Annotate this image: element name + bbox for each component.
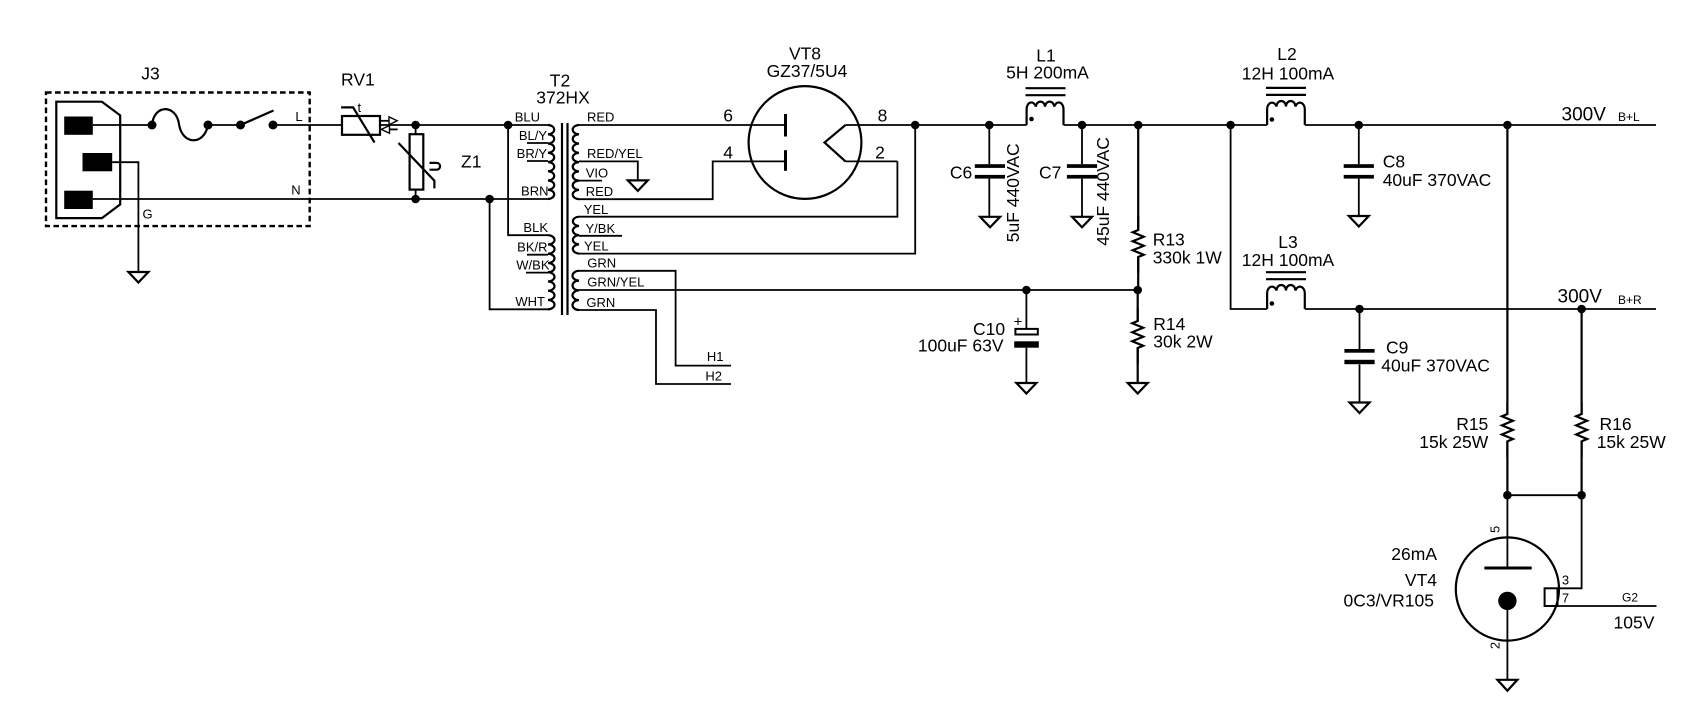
wire fuse to switch (208, 124, 241, 126)
svg-text:4: 4 (723, 143, 733, 163)
svg-text:5H 200mA: 5H 200mA (1006, 63, 1089, 83)
resistor R16 (B+R dropper) (1576, 309, 1587, 495)
svg-text:H2: H2 (705, 369, 722, 384)
svg-text:0C3/VR105: 0C3/VR105 (1344, 591, 1434, 611)
capacitor C7 plates (1067, 164, 1097, 168)
VT8 plate pin 4 bar (784, 150, 787, 171)
svg-text:330k 1W: 330k 1W (1153, 248, 1223, 268)
svg-text:5uF 440VAC: 5uF 440VAC (1003, 143, 1023, 242)
connector J3 pin G (blade) (83, 153, 113, 171)
wire YEL top to VT8 pin 2 riser (579, 161, 897, 216)
tap stub BK/R (527, 254, 548, 256)
resistor R15 (B+L dropper) (1502, 125, 1513, 495)
svg-text:12H 100mA: 12H 100mA (1242, 64, 1335, 84)
tap stub VIO (579, 180, 602, 182)
svg-text:BR/Y: BR/Y (517, 146, 548, 161)
ground (J3 earth) (128, 272, 148, 283)
svg-text:W/BK: W/BK (516, 258, 550, 273)
varistor Z1 body (410, 134, 424, 189)
wire R15 junction to VT4 pin 5 (1506, 495, 1508, 568)
svg-text:40uF 370VAC: 40uF 370VAC (1381, 356, 1490, 376)
resistor R14 (1132, 290, 1143, 383)
inductor L1 core bars (1026, 87, 1066, 89)
svg-text:R13: R13 (1153, 230, 1185, 250)
resistor R13 (1133, 125, 1144, 290)
svg-text:15k 25W: 15k 25W (1597, 432, 1667, 452)
svg-text:GRN: GRN (587, 256, 616, 271)
node dot C10 top (1022, 286, 1031, 295)
transformer T2 secondary 6.3V winding (GRN-GRN) (573, 271, 580, 310)
transformer T2 primary winding 2 (BLK-WHT) (548, 235, 555, 309)
arrow left (RV1 current direction) (390, 128, 398, 130)
inductor L3 core bars (1266, 271, 1306, 273)
svg-text:BLU: BLU (515, 110, 540, 125)
ground C10 (1016, 383, 1036, 394)
svg-text:Z1: Z1 (461, 152, 481, 172)
svg-text:J3: J3 (141, 64, 159, 84)
fuse element (thermal cutout squiggle) (152, 109, 208, 140)
transformer T2 secondary 5V winding (YEL-YEL) (573, 217, 579, 254)
svg-text:RED: RED (586, 184, 613, 199)
svg-text:300V: 300V (1558, 287, 1603, 308)
wire VT4 pin 2 to ground (1506, 610, 1508, 680)
connector J3 pin N (blade) (64, 191, 93, 209)
wire WHT tee from N rail (490, 199, 548, 309)
wire L1 to L2 (1064, 124, 1268, 126)
svg-text:G: G (143, 207, 153, 222)
svg-text:B+L: B+L (1618, 110, 1640, 124)
node dot Z1 bottom (411, 195, 420, 204)
capacitor C9 leads (1359, 309, 1361, 349)
wire GRN/YEL center tap rail (579, 289, 1138, 291)
wire R15-R16 bottom connector (1507, 494, 1581, 496)
wire Z1 bottom lead (415, 190, 417, 199)
svg-text:2: 2 (1488, 642, 1503, 649)
svg-text:2: 2 (875, 143, 885, 163)
ground C7 (1072, 217, 1092, 228)
thermistor RV1 diagonal with t-bar (341, 107, 374, 142)
svg-text:L: L (295, 109, 302, 124)
svg-text:G2: G2 (1622, 590, 1638, 604)
svg-text:BK/R: BK/R (517, 240, 547, 255)
svg-text:VT4: VT4 (1405, 570, 1437, 590)
svg-text:VIO: VIO (586, 166, 608, 181)
svg-text:R15: R15 (1456, 414, 1488, 434)
node dot fuse left (148, 121, 157, 130)
svg-text:45uF 440VAC: 45uF 440VAC (1093, 137, 1113, 246)
wire GRN top to H1 (579, 271, 731, 366)
wire pin 8 to B+ node (846, 124, 1027, 126)
svg-text:C9: C9 (1386, 338, 1408, 358)
ground C9 (1350, 403, 1370, 414)
capacitor C10 leads (1025, 290, 1027, 329)
svg-text:C7: C7 (1039, 163, 1061, 183)
node dot BLK tee (504, 121, 513, 130)
capacitor C8 plates (1344, 164, 1374, 168)
svg-text:RED/YEL: RED/YEL (587, 146, 643, 161)
capacitor C8 leads (1358, 125, 1360, 164)
svg-text:3: 3 (1562, 573, 1569, 588)
svg-text:N: N (291, 183, 300, 198)
wire RED bottom to VT8 plate pin 4 (579, 161, 786, 199)
regulator VT4 envelope (1456, 537, 1559, 640)
VT4 pin 3/7 notch (1545, 588, 1558, 606)
node dot pin8/YEL junction (911, 121, 920, 130)
capacitor C6 plates (975, 164, 1005, 168)
node dot C9 top (1355, 305, 1364, 314)
wire RED/YEL to ground (579, 161, 638, 180)
wire L2 to B+L terminal (1305, 124, 1656, 126)
wire switch to RV1 (L) (273, 124, 342, 126)
inductor L2 phase dot (1270, 117, 1275, 122)
transformer T2 core (561, 123, 563, 315)
connector J3 plug outline (56, 102, 120, 218)
svg-text:GRN: GRN (586, 295, 615, 310)
varistor Z1 U mark (430, 163, 441, 170)
svg-text:BL/Y: BL/Y (519, 128, 548, 143)
thermistor RV1 body (342, 116, 380, 135)
tap stub Y/BK (579, 235, 622, 237)
capacitor C7 leads (1081, 125, 1083, 164)
svg-text:GZ37/5U4: GZ37/5U4 (767, 61, 848, 81)
inductor L2 winding (1267, 101, 1305, 125)
VT8 plate pin 6 bar (784, 114, 787, 137)
ground C6 (980, 217, 1000, 228)
node dot R16 bottom (1577, 491, 1586, 500)
svg-text:YEL: YEL (584, 239, 609, 254)
capacitor C10 positive plate (hollow) (1015, 329, 1037, 335)
svg-text:YEL: YEL (584, 202, 609, 217)
svg-text:40uF 370VAC: 40uF 370VAC (1383, 170, 1492, 190)
ground VT4 cathode return (1497, 680, 1517, 691)
svg-text:BRN: BRN (521, 184, 548, 199)
resistor R13 thick leads (1137, 217, 1139, 231)
svg-text:RV1: RV1 (341, 70, 375, 90)
svg-text:t: t (358, 100, 362, 115)
tap stub W/BK (526, 272, 548, 274)
svg-text:WHT: WHT (515, 294, 545, 309)
connector J3 dashed enclosure (46, 93, 310, 227)
svg-text:BLK: BLK (523, 220, 548, 235)
capacitor C6 leads (988, 125, 990, 164)
wire from pin L to fuse (93, 124, 152, 126)
wire N from pin N to transformer BRN (93, 198, 549, 200)
VT4 anode bar (1484, 567, 1531, 570)
node dot C6 top (985, 121, 994, 130)
VT4 cathode dot (1498, 592, 1516, 610)
node dot L2/L3 tee (1226, 121, 1235, 130)
capacitor C10 negative plate (1014, 341, 1039, 347)
tap stub BR/Y (527, 160, 548, 162)
svg-text:GRN/YEL: GRN/YEL (587, 275, 644, 290)
wire Z1 top lead (415, 125, 417, 134)
svg-text:6: 6 (723, 106, 733, 126)
wire pin 2 (846, 160, 898, 162)
wire G from pin G (112, 162, 138, 272)
node dot R15 bottom (1503, 491, 1512, 500)
svg-text:L3: L3 (1278, 232, 1297, 252)
node dot R16 top (1577, 305, 1586, 314)
capacitor C9 plates (1344, 349, 1374, 353)
wire GRN bottom to H2 (579, 310, 731, 384)
wire R16 junction to VT4 pin 3 (1558, 495, 1582, 588)
svg-text:100uF 63V: 100uF 63V (918, 336, 1004, 356)
node dot R15 top (1503, 121, 1512, 130)
svg-text:30k 2W: 30k 2W (1153, 332, 1213, 352)
inductor L3 winding (1267, 285, 1305, 309)
svg-text:26mA: 26mA (1391, 544, 1437, 564)
node dot WHT tee (485, 195, 494, 204)
node dot switch left (236, 121, 245, 130)
svg-text:L2: L2 (1277, 44, 1296, 64)
svg-text:H1: H1 (707, 349, 724, 364)
node dot Z1 top (411, 121, 420, 130)
ground (HV center tap) (628, 180, 648, 191)
svg-text:B+R: B+R (1618, 293, 1642, 307)
wire RV1 to transformer BLU (380, 124, 549, 126)
inductor L1 phase dot (1029, 117, 1034, 122)
resistor R16 thick leads (1580, 402, 1582, 414)
arrow right (RV1 current direction) (381, 120, 390, 122)
node dot R13/R14 junction (1133, 286, 1142, 295)
VT8 cathode chevron (825, 125, 846, 161)
ground C8 (1349, 216, 1369, 227)
wire YEL bottom to VT8 pin 8 riser (579, 125, 915, 254)
svg-text:8: 8 (878, 106, 888, 126)
node dot C8 top (1355, 121, 1364, 130)
inductor L3 phase dot (1270, 301, 1275, 306)
wire L3 to B+R terminal (1305, 308, 1656, 310)
wire pin 7 to G2 (1558, 605, 1657, 607)
transformer T2 primary winding 1 (BLU-BRN) (548, 125, 554, 199)
ground R14 (1128, 383, 1148, 394)
wire BLK tee from L rail (508, 125, 548, 235)
svg-text:7: 7 (1562, 591, 1569, 606)
resistor R14 thick leads (1137, 309, 1139, 322)
node dot C7 top (1078, 121, 1087, 130)
svg-text:105V: 105V (1614, 613, 1655, 633)
svg-text:15k 25W: 15k 25W (1419, 432, 1489, 452)
wire tee down to L3 (1231, 125, 1268, 309)
svg-text:R16: R16 (1600, 414, 1632, 434)
svg-text:RED: RED (587, 110, 614, 125)
node dot R13 top (1134, 121, 1143, 130)
rectifier VT8 envelope (749, 86, 862, 199)
tap stub BL/Y (527, 142, 548, 144)
svg-text:C6: C6 (950, 163, 972, 183)
svg-text:Y/BK: Y/BK (586, 221, 616, 236)
resistor R15 thick leads (1506, 402, 1508, 414)
svg-text:C8: C8 (1383, 152, 1405, 172)
transformer T2 secondary HV winding (RED-RED) (573, 125, 579, 199)
varistor Z1 diagonal (399, 143, 435, 188)
connector J3 pin L (blade) (64, 117, 93, 135)
svg-text:12H 100mA: 12H 100mA (1242, 250, 1335, 270)
wire RED top to VT8 plate pin 6 (579, 124, 786, 126)
svg-text:5: 5 (1488, 526, 1503, 533)
node dot fuse right (204, 121, 213, 130)
inductor L2 core bars (1266, 87, 1306, 89)
svg-text:372HX: 372HX (536, 88, 590, 108)
switch arm (241, 111, 274, 126)
svg-text:300V: 300V (1562, 105, 1607, 126)
node dot switch right (269, 121, 278, 130)
inductor L1 winding (1027, 102, 1064, 125)
